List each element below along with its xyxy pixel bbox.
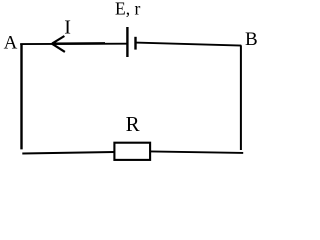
wire bottom-right segment bbox=[150, 151, 243, 153]
svg-text:I: I bbox=[64, 17, 71, 39]
current direction arrow on top wire bbox=[52, 36, 105, 52]
svg-text:B: B bbox=[245, 29, 258, 50]
resistor R box bbox=[114, 143, 150, 160]
svg-text:R: R bbox=[126, 112, 140, 136]
wire right vertical B down bbox=[240, 45, 242, 150]
wire bottom-left segment bbox=[22, 152, 114, 154]
svg-text:A: A bbox=[4, 33, 18, 54]
svg-text:E, r: E, r bbox=[115, 0, 140, 18]
battery cell E,r : short plate bbox=[134, 37, 136, 50]
wire left vertical A down bbox=[20, 44, 22, 150]
battery cell E,r : long plate bbox=[126, 27, 128, 57]
wire top-left segment A to battery bbox=[20, 43, 127, 45]
wire top-right segment battery to B bbox=[136, 43, 242, 46]
